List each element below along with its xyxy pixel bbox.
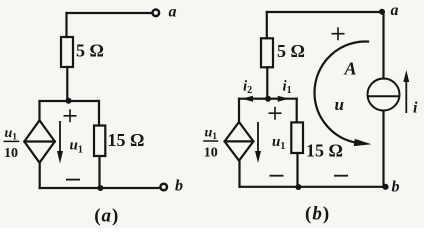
resistor R3 5ohm (b) (261, 38, 273, 67)
node: (b) top junction below 5 ohm (265, 96, 271, 102)
wire: (a) 5 ohm bottom to top node (66, 67, 68, 100)
terminal b (a) open circle (160, 184, 167, 191)
arrow: u1 reference (a) (57, 121, 63, 164)
wire: (b) current source bottom to node b (382, 111, 384, 187)
svg-text:i2: i2 (243, 79, 252, 97)
svg-text:b: b (392, 179, 400, 196)
wire: (b) vertical corner down to 5 ohm resistor (266, 12, 268, 38)
arc: voltage u loop arrow (b) (315, 41, 372, 146)
svg-text:u1: u1 (5, 126, 18, 143)
plus sign of u1 (a) (64, 109, 77, 122)
node b junction dot (b) (382, 184, 388, 190)
arrow: u1 reference (b) (255, 122, 261, 163)
resistor R1 5ohm (a) (61, 37, 73, 67)
svg-text:15 Ω: 15 Ω (306, 141, 343, 161)
node a junction dot (b) (379, 9, 385, 15)
wire: (b) 15 ohm bottom to bottom rail (296, 153, 298, 187)
resistor R2 15ohm (a) (94, 126, 105, 157)
wire: (b) source bottom to bottom rail (238, 161, 240, 187)
wire: (a) source bottom to bottom rail (39, 163, 41, 188)
current source I (b): circle with bar (368, 79, 400, 111)
wire: (b) 5 ohm bottom to top node (266, 67, 268, 98)
svg-text:b: b (175, 178, 183, 195)
wire: (a) vertical corner down to 5 ohm resistor (65, 13, 67, 37)
controlled source U1 diamond (a) (24, 120, 55, 162)
wire: (a) bottom horizontal to terminal b (40, 187, 160, 189)
wire: (a) left drop to controlled source (38, 101, 40, 121)
terminal a (a) open circle (153, 10, 160, 17)
wire: (b) left drop to controlled source (238, 99, 240, 122)
svg-text:(a): (a) (94, 206, 119, 227)
wire: (b) top horizontal from corner to node a (267, 11, 382, 13)
svg-text:u: u (335, 95, 344, 114)
svg-text:10: 10 (204, 145, 218, 160)
svg-text:(b): (b) (305, 204, 330, 225)
wire: (a) right drop to 15 ohm resistor (98, 101, 100, 126)
wire: (a) 15 ohm bottom to bottom rail (98, 156, 100, 188)
svg-text:15 Ω: 15 Ω (108, 130, 145, 150)
arrow: branch current i1 (b) (268, 96, 289, 102)
label: u1/10 gain fraction (a) (4, 126, 20, 161)
svg-text:5 Ω: 5 Ω (277, 41, 305, 61)
svg-text:A: A (344, 59, 357, 79)
svg-text:10: 10 (4, 146, 18, 161)
plus sign of u across network A (b) (332, 27, 345, 40)
resistor R4 15ohm (b) (291, 122, 303, 153)
arrow: current i beside source (b) (403, 70, 409, 113)
wire: (a) loop top horizontal (40, 100, 100, 102)
plus sign of u1 (b) (269, 107, 282, 120)
node: (a) bottom junction (97, 185, 103, 191)
minus sign of u1 (b) (270, 175, 284, 177)
svg-text:u1: u1 (272, 134, 285, 152)
arrow: branch current i2 (b) (242, 96, 269, 102)
wire: (b) right rail node a to current source top (382, 12, 384, 79)
wire: (b) bottom horizontal to node b (240, 186, 386, 188)
svg-text:5 Ω: 5 Ω (76, 41, 104, 61)
svg-text:u1: u1 (70, 138, 83, 156)
svg-text:a: a (169, 4, 177, 21)
svg-text:a: a (391, 2, 399, 19)
node: (b) bottom junction (295, 184, 301, 190)
wire: (b) loop top horizontal with branch arrows (239, 98, 297, 100)
minus sign of u1 (a) (66, 179, 80, 181)
svg-text:i: i (413, 100, 418, 117)
svg-text:u1: u1 (205, 126, 218, 143)
controlled source U1 diamond (b) (225, 122, 254, 161)
label: u1/10 gain fraction (b) (203, 126, 218, 161)
wire: (a) top horizontal from corner to terminal a (67, 12, 152, 14)
node: (a) top junction (66, 98, 72, 104)
wire: (b) right drop to 15 ohm resistor (296, 99, 298, 123)
svg-text:i1: i1 (283, 79, 292, 97)
minus sign of u across network A (b) (334, 175, 348, 177)
